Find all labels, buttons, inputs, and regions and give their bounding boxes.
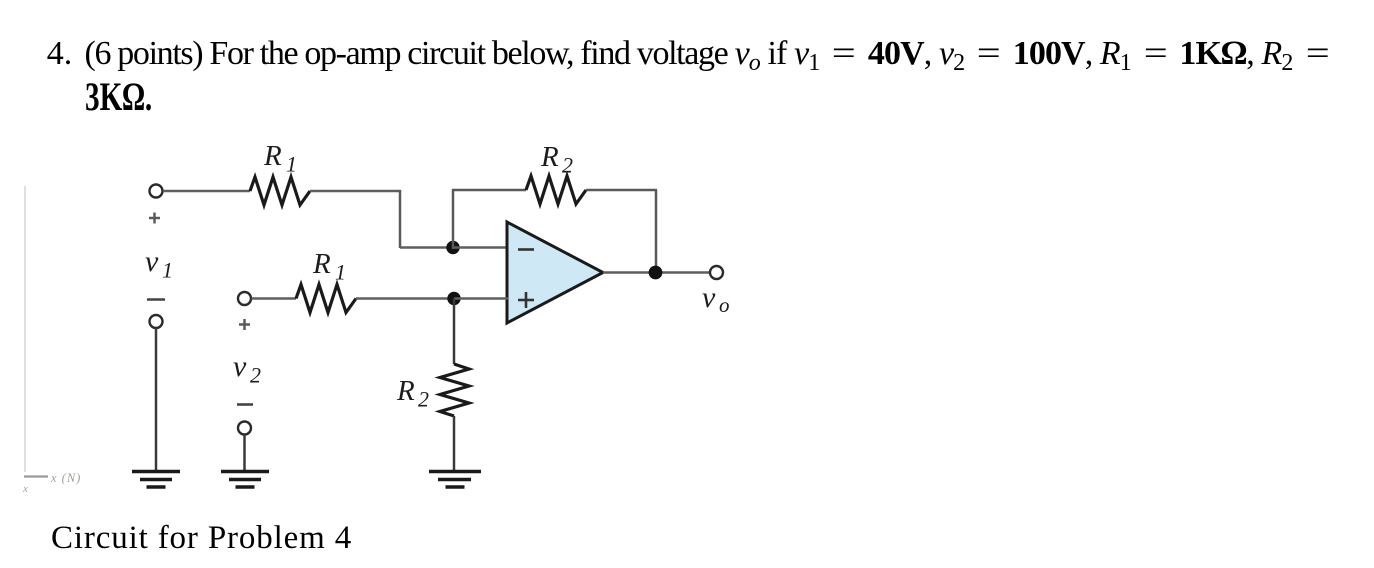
svg-text:R: R (396, 375, 415, 407)
wire corner to node A (400, 246, 453, 249)
wire R2 to ground (453, 416, 456, 470)
terminal circle T3 (vo) (710, 266, 723, 279)
feedback wire down to output node (655, 190, 658, 273)
ground (R2) (429, 472, 481, 488)
node B (output) (649, 266, 663, 280)
op-amp minus sign (518, 248, 534, 251)
svg-text:R: R (540, 141, 559, 173)
svg-text:v: v (702, 281, 716, 314)
terminal circle T1 (v1 +) (150, 185, 163, 198)
wire R1 to corner (310, 190, 401, 193)
caption (51, 522, 352, 555)
terminal circle v1 bottom (150, 315, 163, 328)
ground (v1) (132, 472, 180, 488)
svg-text:1: 1 (286, 152, 297, 177)
terminal circle v2 bottom (238, 422, 251, 435)
resistor R2 (feedback) (526, 176, 586, 204)
node A (inverting input junction) (446, 241, 459, 254)
node C (non-inverting junction) (447, 292, 460, 305)
feedback wire up from node A (452, 189, 455, 249)
op-amp plus sign (518, 292, 534, 308)
wire v1 bottom to ground (155, 328, 158, 470)
svg-text:1: 1 (162, 258, 173, 283)
plus mark of source v1 (149, 213, 160, 224)
svg-text:2: 2 (250, 363, 261, 388)
feedback wire top right segment (586, 189, 657, 192)
svg-text:x: x (22, 483, 28, 495)
wire node C down to R2 (453, 299, 456, 365)
ground (v2) (221, 472, 269, 488)
op-amp U1 (507, 222, 603, 323)
leftover axis artifact (faint) (22, 186, 81, 495)
svg-text:v: v (233, 350, 247, 383)
minus mark of source v2 (237, 403, 253, 406)
resistor R1 (lower) (296, 285, 356, 313)
minus mark of source v1 (147, 298, 165, 301)
wire node A to op-amp - input (453, 246, 508, 249)
svg-text:2: 2 (418, 387, 429, 412)
wire node C to op-amp + input (454, 297, 508, 300)
output wire (603, 271, 711, 274)
svg-text:R: R (263, 140, 282, 172)
svg-text:2: 2 (562, 153, 573, 178)
wire corner down (399, 190, 402, 248)
svg-text:v: v (145, 245, 159, 278)
svg-text:R: R (312, 248, 331, 280)
resistor R2 (to ground) (440, 364, 469, 416)
plus mark of source v2 (239, 319, 250, 330)
wire R1 to node C (356, 297, 454, 300)
resistor R1 (top) (250, 177, 310, 205)
terminal circle T2 (v2 +) (238, 292, 251, 305)
wire v2 bottom to ground (243, 435, 246, 471)
svg-text:x (N): x (N) (50, 471, 81, 485)
problem statement line 2 (85, 78, 152, 118)
feedback wire top left segment (452, 189, 526, 192)
problem statement line 1 (47, 37, 73, 71)
wire T1 to R1 (163, 190, 250, 193)
svg-text:o: o (719, 293, 730, 317)
svg-text:1: 1 (335, 260, 346, 285)
wire T2 to R1 (lower) (252, 297, 297, 300)
